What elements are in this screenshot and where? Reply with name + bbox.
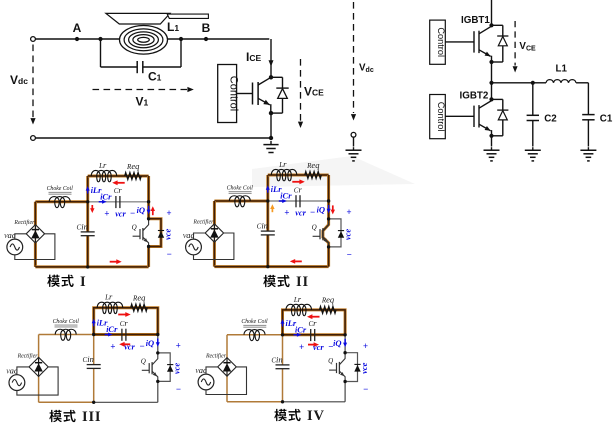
diode D1 triangle (278, 89, 288, 99)
wire bottom rail right (IV) (283, 401, 346, 403)
svg-text:vcr: vcr (124, 342, 135, 352)
wire diode branch (IV) (345, 353, 357, 382)
svg-text:iQ: iQ (317, 204, 325, 214)
capacitor C1 plates (582, 114, 594, 116)
svg-text:L1: L1 (167, 20, 179, 34)
svg-text:−: − (310, 207, 315, 217)
svg-text:Rectifier: Rectifier (205, 352, 227, 359)
svg-text:−: − (176, 384, 181, 394)
svg-text:iQ: iQ (333, 338, 341, 348)
wire Q branch lower (III) (157, 381, 159, 402)
wire emitter2 to ground (491, 136, 493, 147)
svg-text:Q: Q (141, 357, 146, 365)
choke coil core lines (III) (55, 324, 78, 326)
wire Vac top (III) (17, 367, 29, 375)
resistor Req (I) (125, 173, 142, 180)
wire right vertical lower (II) (327, 247, 330, 267)
transistor Q gate lead (I) (133, 235, 140, 237)
arrow red top (I) (117, 182, 125, 184)
svg-text:−: − (139, 341, 144, 351)
IGBT1 body bar (478, 31, 480, 53)
IGBT1 emitter diagonal (479, 50, 491, 57)
IGBT1 collector dot (489, 23, 493, 27)
diode D1 top wire (271, 76, 283, 78)
arrow iCr blue (I) (99, 201, 103, 203)
svg-text:Cr: Cr (294, 184, 303, 194)
choke coil inductor (IV) (244, 330, 265, 341)
svg-text:Rectifier: Rectifier (192, 218, 214, 225)
source Vac sine (III) (12, 380, 21, 386)
arrow Vdc right dashed (353, 2, 355, 113)
arrow iQ blue (II) (328, 205, 330, 210)
capacitor Cr plates (IV) (310, 329, 312, 341)
wire rectifier branch (I) (34, 202, 37, 267)
wire resonant top (I) (88, 175, 149, 178)
wire Vac top (IV) (206, 367, 218, 374)
control box 2 (430, 95, 446, 139)
transistor Q emitter path (I) (143, 237, 149, 246)
wire gate 1 (445, 41, 474, 43)
svg-text:Lr: Lr (104, 292, 113, 302)
svg-text:Vac: Vac (183, 230, 195, 240)
wire resonant loop highlighted (IV) (283, 310, 346, 335)
wire choke branch (III) (39, 334, 94, 336)
diode D1 bottom wire (271, 112, 283, 114)
midpoint node (489, 81, 493, 85)
svg-text:Rectifier: Rectifier (17, 352, 39, 359)
wire left vertical upper (II) (266, 175, 269, 231)
wire bottom rail (I) (35, 265, 148, 268)
arrow iQ blue (I) (148, 206, 150, 211)
ground under IGBT2 (491, 147, 493, 150)
ground under C2 (532, 147, 534, 150)
capacitor C2 plates (527, 114, 539, 116)
svg-text:Q: Q (328, 357, 333, 365)
transistor Q gate lead (IV) (329, 369, 336, 371)
rectifier diamond (IV) (218, 358, 237, 377)
svg-text:+: + (110, 342, 115, 352)
capacitor Cin plates (IV) (276, 364, 290, 366)
IGBT2 collector diagonal (479, 101, 492, 109)
svg-text:vcr: vcr (313, 342, 324, 352)
diode of IGBT1 cathode bar (497, 35, 508, 37)
svg-text:+: + (299, 342, 304, 352)
svg-text:iCr: iCr (106, 324, 118, 334)
pan body (106, 13, 170, 24)
caption mode II (263, 275, 276, 287)
wire gate (237, 93, 253, 95)
terminal bottom-left (31, 136, 36, 141)
diode of IGBT2 top wire (492, 98, 503, 100)
source Vac circle (I) (7, 239, 23, 255)
svg-text:−: − (166, 249, 171, 259)
capacitor C1 plates (136, 61, 138, 73)
transistor Q gate lead (II) (313, 235, 320, 237)
wire Vac top (I) (15, 234, 26, 239)
node C2 (531, 81, 535, 85)
svg-text:+: + (176, 341, 181, 351)
transistor Q body bar (I) (142, 228, 144, 240)
resistor Req (III) (131, 304, 148, 311)
wire C2 node to L1 (533, 82, 546, 84)
wire top feed (491, 0, 493, 25)
inductor Lr (I) (91, 170, 117, 181)
source Vac circle (III) (9, 375, 25, 391)
wire gate 2 (445, 115, 474, 117)
node B (204, 37, 208, 41)
arrow orange up left (II) (271, 208, 273, 212)
IGBT collector diagonal (258, 77, 271, 85)
svg-text:Cin: Cin (77, 221, 88, 231)
choke coil inductor (III) (55, 329, 76, 340)
wire resonant middle branch (I) (88, 201, 149, 203)
wire choke branch (IV) (227, 334, 283, 336)
wire right vertical upper (II) (327, 175, 330, 219)
wire L1 to C1 branch (576, 82, 588, 84)
wire bottom rail left (III) (39, 401, 94, 403)
rectifier diode (IV) (226, 359, 228, 376)
svg-text:VCE: VCE (304, 85, 324, 99)
arrow red bottom (II) (294, 260, 302, 262)
svg-text:Choke Coil: Choke Coil (241, 319, 268, 325)
resistor Req (II) (305, 172, 322, 179)
caption mode IV (274, 409, 287, 421)
svg-text:+: + (284, 208, 289, 218)
caption mode I (47, 275, 60, 287)
svg-text:Req: Req (321, 295, 335, 305)
svg-text:C2: C2 (544, 113, 557, 124)
svg-text:vce: vce (162, 229, 172, 240)
svg-text:C1: C1 (600, 113, 613, 124)
IGBT2 body bar (478, 105, 480, 127)
svg-text:iQ: iQ (146, 338, 154, 348)
node right of coil (179, 37, 183, 41)
capacitor Cr plates (III) (121, 329, 123, 341)
wire left vertical lower (I) (86, 236, 89, 267)
rectifier diode (I) (34, 226, 36, 242)
svg-text:−: − (346, 249, 351, 259)
arrow iLr blue (III) (93, 322, 95, 326)
svg-text:Q: Q (132, 223, 137, 231)
node dots (II) (266, 199, 269, 202)
ground under C1 (587, 147, 589, 150)
svg-text:IV: IV (307, 408, 325, 424)
wire C1 branch bottom right (143, 66, 181, 68)
wire C1 to ground (587, 120, 589, 147)
svg-text:C1: C1 (148, 70, 162, 84)
transistor Q collector path (II) (323, 219, 329, 231)
svg-text:Rectifier: Rectifier (13, 219, 35, 226)
rectifier diode (III) (38, 358, 40, 375)
IGBT gate bar (252, 83, 254, 105)
svg-text:Lr: Lr (98, 160, 107, 170)
wire resonant loop highlighted (III) (94, 308, 158, 335)
capacitor Cr plates (II) (295, 195, 297, 207)
wire top (35, 38, 269, 40)
svg-text:Choke Coil: Choke Coil (47, 186, 74, 192)
transistor Q emitter path (III) (152, 371, 158, 381)
wire left vertical upper (I) (86, 176, 89, 232)
arrow V1 dashed (93, 89, 188, 91)
wire midpoint to C2 node (492, 82, 533, 84)
diode of Q (I) (158, 230, 164, 232)
ground under Vdc right (353, 147, 355, 150)
diode of IGBT1 down lead (502, 46, 504, 62)
rectifier diode (II) (213, 225, 215, 241)
transistor Q gate bar (III) (148, 363, 150, 373)
inductor Lr (II) (271, 169, 297, 180)
svg-text:Vac: Vac (6, 365, 18, 375)
wire Vac top (II) (194, 233, 206, 239)
svg-text:vce: vce (342, 229, 352, 240)
IGBT2 collector dot (489, 97, 493, 101)
wire left vertical lower (II) (266, 235, 269, 267)
svg-text:Lr: Lr (278, 159, 287, 169)
wire left vertical lower (III) (93, 335, 95, 365)
svg-text:IGBT1: IGBT1 (461, 15, 490, 26)
capacitor Cin plates (I) (81, 231, 95, 233)
IGBT emitter dot (269, 111, 273, 115)
diode D1 cathode bar (276, 87, 288, 89)
wire through IGBT Q highlighted (II) (323, 219, 329, 247)
svg-text:Choke Coil: Choke Coil (53, 319, 80, 325)
arrow red down at iQ (II) (332, 205, 334, 210)
source Vac circle (II) (186, 239, 202, 255)
transistor Q collector path (III) (152, 353, 158, 365)
wire C2 to ground (532, 121, 534, 147)
diode of IGBT2 cathode bar (497, 109, 508, 111)
svg-text:III: III (82, 409, 101, 425)
caption mode III (49, 410, 62, 422)
wire left vertical lower (IV) (282, 335, 284, 365)
node dots (I) (86, 200, 89, 203)
diode of Q (IV) (354, 363, 360, 365)
svg-text:Q: Q (312, 223, 317, 231)
diode of Q (III) (167, 364, 173, 366)
wire choke branch highlighted (I) (35, 200, 87, 203)
diode D1 up lead (282, 77, 284, 88)
svg-text:Req: Req (306, 160, 320, 170)
diode D1 down lead (282, 98, 284, 113)
arrow iCr blue (III) (105, 334, 109, 336)
transistor Q gate bar (IV) (336, 363, 338, 373)
svg-text:Cr: Cr (309, 318, 318, 328)
svg-text:B: B (202, 21, 211, 35)
arrow iQ blue (IV) (344, 339, 346, 344)
svg-text:ICE: ICE (246, 50, 261, 64)
wire rectifier branch (IV) (226, 335, 228, 402)
choke coil core lines (IV) (243, 324, 266, 326)
wire Vac bottom loop (I) (15, 234, 55, 260)
background shading (252, 156, 415, 187)
capacitor Cr plates (I) (115, 196, 117, 208)
wire Vac bottom loop (III) (17, 367, 58, 395)
wire resonant top (II) (268, 174, 329, 177)
node dots (IV) (281, 333, 284, 336)
transistor Q emitter path (II) (323, 237, 329, 247)
wire C2 down (532, 83, 534, 116)
wire choke branch highlighted (II) (214, 200, 267, 203)
svg-text:Req: Req (132, 293, 146, 303)
source Vac sine (I) (10, 244, 19, 250)
arrow red vcr (III) (124, 343, 131, 345)
svg-text:Cr: Cr (114, 185, 123, 195)
IGBT collector dot (269, 75, 273, 79)
svg-text:I: I (80, 274, 86, 290)
svg-text:Vdc: Vdc (359, 63, 374, 75)
wire C1 branch down (587, 83, 589, 115)
wire C1 branch right (180, 39, 182, 67)
inductor L1 filter (546, 80, 576, 83)
svg-text:+: + (104, 208, 109, 218)
svg-text:Vac: Vac (4, 230, 16, 240)
svg-text:V1: V1 (136, 95, 149, 109)
svg-text:Control: Control (436, 27, 446, 57)
wire diode branch highlighted (I) (149, 219, 161, 247)
wire C1 branch left (100, 39, 102, 67)
svg-text:iCr: iCr (100, 192, 112, 202)
capacitor Cin plates (II) (261, 230, 275, 232)
choke coil core lines (II) (229, 191, 252, 193)
transistor Q collector path (IV) (339, 353, 345, 365)
ground main (270, 141, 272, 145)
wire collector drop (270, 39, 272, 77)
wire Vac bottom loop (IV) (206, 367, 247, 395)
diode of IGBT2 bottom wire (492, 135, 503, 137)
svg-text:−: − (363, 384, 368, 394)
IGBT2 emitter diagonal (479, 124, 491, 131)
svg-text:vce: vce (172, 363, 182, 374)
wire Q branch upper (IV) (344, 335, 346, 353)
svg-text:IGBT2: IGBT2 (460, 90, 489, 101)
choke coil inductor (II) (229, 196, 250, 207)
junction dot on bottom rail (269, 136, 273, 140)
wire right vertical upper (I) (147, 176, 150, 219)
svg-text:Choke Coil: Choke Coil (227, 185, 254, 191)
diode of IGBT2 triangle (498, 111, 507, 120)
svg-text:Vac: Vac (195, 365, 207, 375)
svg-text:VCE: VCE (519, 41, 536, 53)
IGBT body bar (257, 82, 259, 105)
arrow iCr blue (IV) (294, 334, 298, 336)
wire bottom rail left (IV) (227, 401, 283, 403)
arrow iQ blue (III) (157, 339, 159, 344)
diode of IGBT1 bottom wire (492, 61, 503, 63)
source Vac sine (II) (189, 244, 198, 250)
inductor Lr (III) (97, 302, 123, 313)
arrow red vcr (IV) (308, 344, 315, 346)
wire bottom (35, 137, 271, 139)
svg-text:vce: vce (359, 362, 369, 373)
transistor Q emitter path (IV) (339, 371, 345, 381)
diode of Q (II) (338, 230, 344, 232)
inductor Lr (IV) (286, 304, 312, 315)
arrow Vdc dashed (32, 45, 34, 118)
rectifier diamond (II) (205, 224, 223, 242)
svg-text:Cin: Cin (271, 354, 282, 364)
IGBT1 emitter dot (489, 60, 493, 64)
arrow iLr blue (II) (267, 189, 269, 193)
node A (75, 37, 79, 41)
top-right circuit: half-bridge with LC filter (346, 0, 613, 161)
IGBT1 collector diagonal (479, 26, 492, 34)
IGBT1 gate bar (473, 31, 475, 52)
wire bottom rail right (III) (94, 401, 158, 403)
svg-text:vcr: vcr (295, 208, 306, 218)
rectifier diamond (I) (26, 225, 44, 243)
svg-text:+: + (346, 207, 351, 217)
wire C1 branch bottom left (101, 66, 138, 68)
wire between IGBTs (491, 62, 493, 99)
control box U1 (218, 65, 237, 123)
IGBT2 gate bar (473, 106, 475, 127)
arrow VCE dashed (300, 59, 302, 121)
arrow iLr blue (I) (87, 190, 89, 194)
capacitor Cin plates (III) (87, 364, 101, 366)
diode of IGBT2 up lead (502, 99, 504, 110)
node dots (III) (92, 333, 95, 336)
diode of IGBT1 triangle (498, 37, 507, 46)
svg-text:Cr: Cr (120, 318, 129, 328)
wire diode branch (II) (329, 219, 341, 247)
svg-text:−: − (130, 208, 135, 218)
svg-text:+: + (166, 208, 171, 218)
arrow red top (II) (292, 181, 300, 183)
transistor Q gate bar (I) (139, 229, 141, 239)
diode of IGBT2 down lead (502, 120, 504, 136)
transistor Q gate lead (III) (142, 369, 149, 371)
transistor Q gate bar (II) (319, 229, 321, 239)
arrow VCE right dashed (514, 21, 516, 66)
transistor Q body bar (II) (322, 228, 324, 240)
svg-text:Cin: Cin (257, 221, 268, 231)
svg-text:iCr: iCr (280, 191, 292, 201)
wire Q branch upper (III) (157, 335, 159, 353)
svg-text:+: + (363, 341, 368, 351)
diode of IGBT1 up lead (502, 25, 504, 36)
svg-text:Control: Control (436, 102, 446, 132)
svg-text:Vdc: Vdc (10, 73, 28, 87)
IGBT emitter diagonal (258, 98, 270, 105)
terminal Vdc right (351, 132, 356, 137)
node left of coil (98, 37, 102, 41)
terminal top-left (31, 37, 36, 42)
induction coil L1 spiral (120, 26, 168, 55)
choke coil inductor (I) (49, 197, 70, 208)
wire Vac bottom loop (II) (194, 233, 234, 260)
wire emitter to ground rail (270, 113, 272, 138)
diode of IGBT1 top wire (492, 24, 503, 26)
svg-text:Lr: Lr (293, 294, 302, 304)
wire bottom rail (II) (214, 265, 328, 268)
IGBT emitter stub (270, 104, 272, 113)
arrow red top (IV) (311, 316, 319, 318)
IGBT1 emitter stub (491, 56, 493, 62)
arrow iLr blue (IV) (282, 323, 284, 327)
IGBT2 emitter stub (491, 130, 493, 136)
svg-text:II: II (296, 274, 309, 290)
arrow red up at iQ (I) (152, 210, 154, 215)
wire diode branch (III) (158, 353, 170, 382)
wire right vertical lower (I) (147, 247, 150, 267)
wire resonant middle branch highlighted (IV) (283, 333, 346, 336)
svg-text:A: A (73, 21, 82, 35)
source Vac circle (IV) (198, 374, 214, 390)
transistor Q collector path (I) (143, 219, 149, 231)
rectifier diamond (III) (29, 357, 48, 376)
svg-text:Cin: Cin (83, 354, 94, 364)
arrow red down left (I) (91, 205, 93, 209)
